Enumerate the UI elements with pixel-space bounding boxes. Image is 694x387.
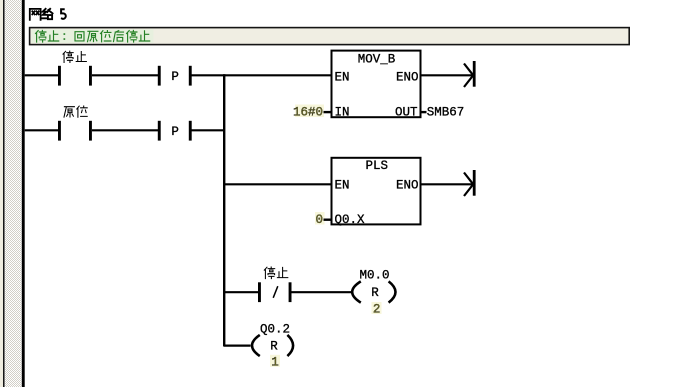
wire rung2: contact 原位 to edge contact P [92,129,158,131]
label 停止 (rung 1) [63,51,86,62]
IN pin stub [324,111,332,113]
svg-text:OUT: OUT [395,106,418,120]
wire rung1: contact 停止 to edge contact P [92,74,158,76]
OUT pin stub [421,111,427,113]
network comment box [30,28,630,45]
label 停止 (rung 3) [264,267,288,279]
wire rung1: P contact through junction to MOV_B EN [191,74,332,76]
positive edge contact P (rung 2) [158,121,192,141]
svg-text:0: 0 [315,213,323,227]
svg-text:PLS: PLS [366,159,389,173]
wire: PLS ENO output [421,183,473,185]
svg-text:16#0: 16#0 [293,106,323,120]
reset count 1 (coil rung 4) [270,355,280,367]
wire rung1: rail to contact 停止 [25,74,58,76]
wire rung3: branch to NC contact 停止 [225,291,258,293]
svg-text:M0.0: M0.0 [359,268,389,282]
vertical branch wire (junction x=224) [223,74,225,346]
svg-text:R: R [270,340,278,354]
wire rung2: rail to contact 原位 [25,129,58,131]
reset coil M0.0 (R) [352,281,395,302]
operand 0 on Q0.X [315,212,325,225]
svg-text:EN: EN [335,70,350,84]
svg-text:2: 2 [373,303,381,317]
svg-text:IN: IN [335,106,350,120]
wire rung4: branch corner to reset coil Q0.2 [224,345,251,347]
open branch arrow (PLS ENO) [464,170,476,196]
wire rung3: NC contact to reset coil M0.0 [292,291,352,293]
svg-text:P: P [171,70,179,84]
svg-text:MOV_B: MOV_B [358,52,396,66]
svg-text:R: R [371,286,379,300]
svg-text:P: P [171,125,179,139]
Q0.X pin stub [324,219,332,221]
left power rail [22,0,25,387]
wire rung2: P contact to branch junction [191,129,225,131]
svg-text:EN: EN [335,179,350,193]
operand 16#0 on IN [295,105,324,118]
instruction box MOV_B [332,51,421,118]
comment text 停止；回原位后停止 [36,30,150,42]
instruction box PLS [332,158,421,225]
positive edge contact P (rung 1) [158,66,192,86]
svg-text:SMB67: SMB67 [427,106,465,120]
network title 网络 5 [30,9,66,20]
svg-text:ENO: ENO [396,70,419,84]
NO contact 停止 (rung 1) [58,66,92,86]
left margin strip [0,0,22,387]
svg-text:Q0.X: Q0.X [335,213,366,227]
svg-text:ENO: ENO [396,179,419,193]
svg-text:1: 1 [271,355,279,369]
svg-text:Q0.2: Q0.2 [260,322,290,336]
NO contact 原位 (rung 2) [58,121,92,141]
label 原位 (rung 2) [64,106,87,117]
reset count 2 (coil rung 3) [372,302,382,314]
reset coil Q0.2 (R) [252,335,293,356]
wire: MOV_B ENO output [421,74,473,76]
wire: branch to PLS EN [225,183,332,185]
NC contact 停止 (rung 3) [258,282,292,302]
open branch arrow (MOV_B ENO) [464,61,476,87]
